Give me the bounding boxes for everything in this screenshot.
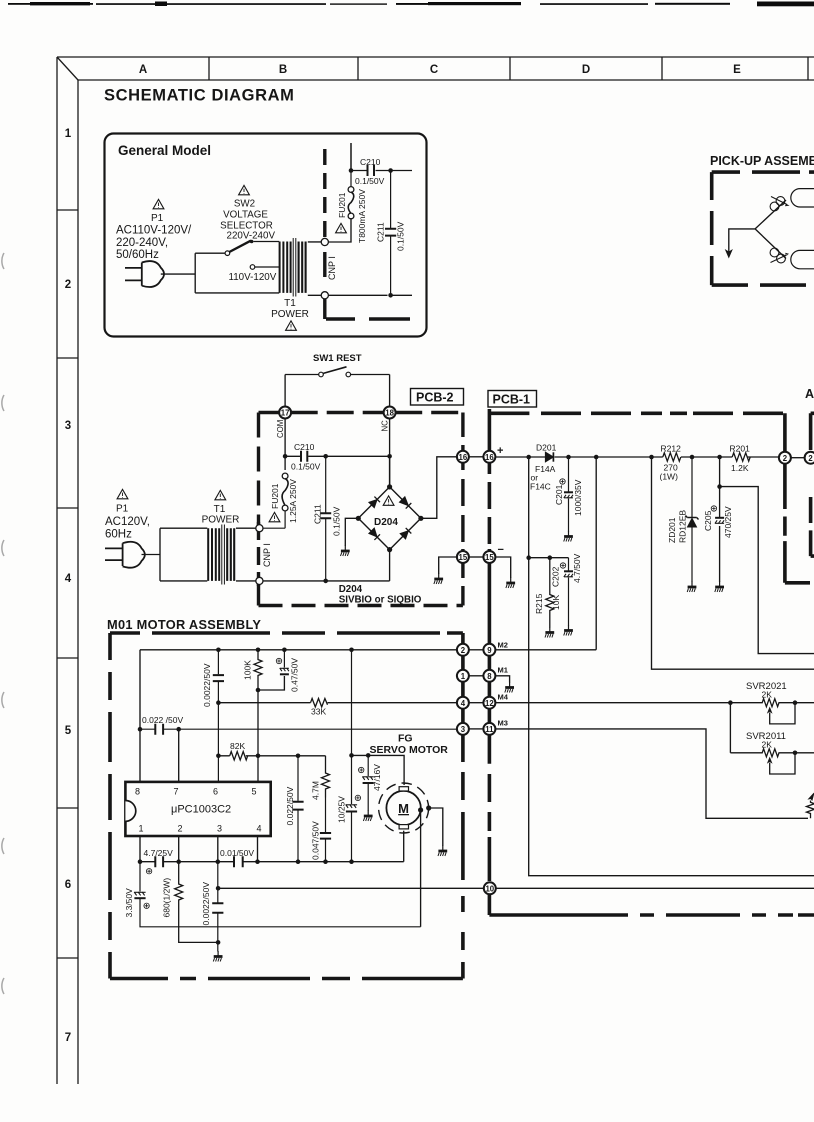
- node C205 top: [717, 455, 722, 460]
- svg-text:AC110V-120V/: AC110V-120V/: [116, 225, 192, 237]
- svg-text:15: 15: [459, 553, 468, 562]
- resistor 4.7M: [322, 756, 330, 798]
- connector circle 12: [483, 697, 495, 709]
- capacitor 0.0022/50V (bottom): [212, 862, 223, 952]
- wire 15 to ground: [439, 557, 457, 574]
- node 10/25V top rail: [349, 648, 354, 653]
- svg-text:3: 3: [461, 725, 466, 734]
- svg-text:SCHEMATIC DIAGRAM: SCHEMATIC DIAGRAM: [104, 87, 294, 105]
- svg-text:POWER: POWER: [202, 515, 240, 526]
- wire CNP1 to fuse: [328, 218, 388, 295]
- svg-text:10/25V: 10/25V: [337, 796, 347, 823]
- resistor R201: [732, 453, 750, 461]
- warning triangle FU201 (pcb-2): [269, 512, 280, 521]
- node SVR2021 left: [728, 700, 733, 705]
- svg-text:P1: P1: [151, 213, 164, 224]
- svg-text:4: 4: [461, 699, 466, 708]
- connector circle 8: [483, 670, 495, 682]
- svg-text:C202: C202: [551, 566, 561, 587]
- wire 17 down to C210 rail: [284, 418, 286, 470]
- wire SW1 left: [285, 375, 319, 407]
- wire R212 node down and right: [652, 457, 814, 669]
- wire 18 down to rail: [389, 418, 391, 485]
- label T1 POWER (120V): [202, 504, 240, 526]
- wire 100K to 0.47 cap: [258, 676, 284, 690]
- node 100K bottom: [256, 688, 261, 693]
- svg-text:FG: FG: [398, 733, 413, 745]
- svg-text:C205: C205: [703, 510, 713, 531]
- transformer T1 (120V): [208, 525, 234, 585]
- connector circle 11: [483, 723, 495, 735]
- motor brush top: [399, 787, 408, 791]
- svg-text:C201: C201: [554, 484, 564, 505]
- svg-text:0.47/50V: 0.47/50V: [290, 658, 300, 692]
- svg-text:470/25V: 470/25V: [723, 506, 733, 538]
- wire pin2 down: [178, 836, 180, 862]
- node C211 bottom (pcb-2): [323, 579, 328, 584]
- pick-up border bottom: [712, 283, 806, 287]
- capacitor 3.3/50V: [134, 862, 420, 927]
- svg-text:(1W): (1W): [660, 472, 679, 482]
- svg-text:16: 16: [485, 453, 494, 462]
- ground (bridge left): [341, 546, 350, 557]
- capacitor 0.022/50V (right): [292, 756, 303, 862]
- svg-text:5: 5: [251, 787, 256, 797]
- node R215 top: [548, 555, 553, 560]
- node pin4 rail: [255, 859, 260, 864]
- svg-text:FU201: FU201: [337, 192, 347, 218]
- node C205 branch: [717, 484, 722, 489]
- node 47/16V top: [366, 753, 371, 758]
- capacitor 0.01/50V: [234, 856, 243, 867]
- node rail to M2 branch: [594, 455, 599, 460]
- node 10/25V bottom: [349, 859, 354, 864]
- diode D201: [546, 452, 554, 461]
- wire motor bottom: [403, 831, 405, 862]
- svg-text:3: 3: [217, 824, 222, 834]
- node C211 top: [388, 168, 393, 173]
- wire 16-16 stub: [469, 456, 484, 458]
- capacitor 0.47/50V: [280, 650, 289, 675]
- node 0.0022 top: [216, 648, 221, 653]
- svg-text:15: 15: [485, 553, 494, 562]
- svg-text:D: D: [582, 64, 590, 76]
- M01 border top: [110, 631, 463, 635]
- wire 1-8 stub: [469, 675, 484, 677]
- svg-text:RD12EB: RD12EB: [678, 510, 688, 543]
- wire plug to T1 (120V): [142, 528, 208, 581]
- wire 3-11 stub: [469, 728, 484, 730]
- photo sensor lower body: [791, 250, 814, 268]
- resistor 680(1/2W): [175, 862, 218, 943]
- pick-up border top: [712, 170, 814, 174]
- svg-text:0.047/50V: 0.047/50V: [311, 821, 321, 860]
- wire C205 vertical: [719, 457, 721, 582]
- svg-text:6: 6: [213, 787, 218, 797]
- PCB-2 border bottom: [259, 604, 463, 607]
- PCB-1 border top: [489, 411, 785, 415]
- capacitor C210 (general model): [368, 165, 375, 176]
- warning triangle SW2: [239, 185, 250, 194]
- svg-text:0.01/50V: 0.01/50V: [220, 848, 254, 858]
- label box PCB-1: [488, 391, 537, 408]
- capacitor 0.022/50V (pins 8-7): [140, 724, 457, 735]
- motor M body: [386, 791, 420, 825]
- label AC120V 60Hz: [105, 516, 150, 541]
- svg-text:R201: R201: [730, 444, 751, 454]
- capacitor 0.0022/50V (top): [213, 650, 224, 782]
- svg-text:T800mA 250V: T800mA 250V: [357, 189, 367, 243]
- wire T1 secondary to CNP1: [308, 242, 322, 295]
- svg-text:1: 1: [65, 128, 72, 140]
- svg-text:PCB-2: PCB-2: [416, 391, 454, 405]
- capacitor 10/25V: [346, 650, 357, 862]
- wire top rail: [351, 143, 412, 171]
- connector circle 2 (assembly A): [805, 452, 814, 464]
- wire pin1 down: [139, 836, 141, 862]
- svg-text:50/60Hz: 50/60Hz: [116, 249, 159, 261]
- ground (C205): [715, 582, 724, 593]
- svg-text:3.3/50V: 3.3/50V: [124, 888, 134, 918]
- node 0.047 rail: [323, 859, 328, 864]
- svg-text:10: 10: [485, 884, 494, 893]
- fuse FU201 (general model): [348, 143, 354, 219]
- svg-text:M3: M3: [498, 719, 508, 728]
- wire 82K rail: [218, 755, 325, 757]
- connector circle 2 (m01): [457, 644, 469, 656]
- wire T1 secondary to CNP1 (pcb2): [236, 528, 256, 581]
- plug P1: [125, 261, 164, 287]
- trimmer SVR2011: [730, 749, 795, 774]
- svg-text:D204: D204: [374, 517, 398, 528]
- label T1 POWER: [271, 298, 309, 320]
- wire pin7 down: [178, 729, 180, 781]
- wire main +B rail: [495, 456, 779, 458]
- node 10/25V motor wire: [349, 753, 354, 758]
- node ZD201 top: [690, 455, 695, 460]
- warning triangle T1: [286, 321, 297, 330]
- diode arrows of D204: [369, 497, 412, 540]
- svg-text:8: 8: [487, 672, 492, 681]
- svg-text:SW2: SW2: [234, 199, 255, 210]
- ground (C201): [564, 531, 573, 542]
- polarity 47/16V: [359, 767, 364, 772]
- svg-text:ZD201: ZD201: [667, 517, 677, 543]
- svg-text:0.1/50V: 0.1/50V: [396, 221, 406, 251]
- connector circle 3 (m01): [457, 723, 469, 735]
- pick-up border left: [710, 172, 714, 285]
- svg-text:0.022/50V: 0.022/50V: [285, 786, 295, 825]
- motor terminal dot right: [418, 807, 423, 812]
- svg-text:SERVO MOTOR: SERVO MOTOR: [370, 744, 449, 756]
- svg-text:2: 2: [808, 454, 813, 463]
- svg-text:4.7/50V: 4.7/50V: [572, 553, 582, 583]
- ground (pin 15 pcb-1): [506, 578, 515, 589]
- PCB-1 border right: [783, 413, 787, 583]
- svg-text:2: 2: [65, 279, 71, 291]
- coil upper: [770, 197, 788, 211]
- photo sensor upper body: [791, 189, 814, 207]
- svg-text:10K: 10K: [551, 595, 561, 610]
- wire plug to switch: [161, 253, 279, 293]
- svg-text:−: −: [498, 544, 504, 556]
- capacitor 4.7/25V: [155, 856, 163, 867]
- wire C205 branch to SVR rail: [720, 487, 814, 654]
- wire M2 to rail branch: [495, 649, 596, 651]
- wire M4 to SVR2021: [495, 702, 730, 704]
- svg-text:M01 MOTOR ASSEMBLY: M01 MOTOR ASSEMBLY: [107, 617, 261, 632]
- wire bridge bottom to rail: [389, 550, 391, 581]
- svg-text:C210: C210: [360, 157, 381, 167]
- svg-text:7: 7: [65, 1032, 71, 1044]
- svg-text:F14A: F14A: [535, 464, 556, 474]
- svg-text:M: M: [398, 801, 409, 816]
- node 100K top: [256, 648, 261, 653]
- connector circle 18: [384, 407, 396, 419]
- wire bridge top to rail: [389, 456, 391, 487]
- resistor 100K: [254, 650, 262, 782]
- capacitor C201: [564, 457, 573, 532]
- node pin2 rail: [176, 859, 181, 864]
- wire top rail (motor): [140, 649, 457, 651]
- connector circle 4 (m01): [457, 697, 469, 709]
- label SW2 VOLTAGE SELECTOR: [220, 199, 273, 232]
- svg-text:VOLTAGE: VOLTAGE: [223, 210, 268, 221]
- node C201 top: [566, 455, 571, 460]
- svg-text:1.25A 250V: 1.25A 250V: [288, 479, 298, 523]
- svg-text:0.0022/50V: 0.0022/50V: [201, 882, 211, 926]
- svg-text:11: 11: [485, 725, 494, 734]
- svg-text:220-240V,: 220-240V,: [116, 237, 168, 249]
- svg-text:0.022 /50V: 0.022 /50V: [142, 715, 183, 725]
- PCB-1 border bottom: [489, 913, 814, 917]
- polarity 10/25V: [355, 795, 360, 800]
- CNP1 pin circles (pcb-2): [256, 525, 263, 585]
- coil lower: [770, 248, 788, 263]
- svg-text:C210: C210: [294, 442, 315, 452]
- svg-text:General Model: General Model: [118, 143, 211, 158]
- svg-text:1: 1: [461, 672, 466, 681]
- resistor R215: [546, 558, 554, 628]
- polarity 3.3/50V: [144, 903, 149, 908]
- wire SVR2021 left down to SVR2011: [729, 703, 731, 753]
- ground (motor): [438, 846, 447, 857]
- switch SW2: [225, 240, 255, 270]
- polarity C202: [560, 563, 565, 568]
- svg-text:SW1 REST: SW1 REST: [313, 353, 362, 364]
- column letters: [139, 64, 741, 76]
- svg-text:A: A: [805, 387, 814, 401]
- trimmer SVR2021: [730, 699, 795, 724]
- svg-text:1.2K: 1.2K: [731, 463, 749, 473]
- wire 2-9 stub: [469, 649, 484, 651]
- connector circle 17: [279, 407, 291, 419]
- svg-text:6: 6: [65, 879, 71, 891]
- svg-text:0.1/50V: 0.1/50V: [291, 462, 321, 472]
- assembly A border: [811, 413, 814, 556]
- label box PCB-2: [411, 389, 464, 406]
- svg-text:F14C: F14C: [530, 482, 551, 492]
- svg-text:B: B: [279, 64, 287, 76]
- connector circle 1 (m01): [457, 670, 469, 682]
- svg-text:AC120V,: AC120V,: [105, 516, 150, 528]
- svg-text:NC: NC: [381, 420, 390, 432]
- node 82K right: [256, 754, 261, 759]
- plug P1 (120V): [105, 542, 145, 568]
- PCB-2 border left: [257, 413, 260, 606]
- ground (ZD201): [687, 582, 696, 593]
- svg-text:33K: 33K: [311, 707, 326, 717]
- wire C210 rail: [285, 455, 390, 457]
- svg-text:1: 1: [138, 824, 143, 834]
- IC pin numbers top: [135, 787, 257, 797]
- wire 2-2 stub: [791, 457, 805, 459]
- svg-text:2: 2: [461, 646, 466, 655]
- node R212 left: [649, 455, 654, 460]
- svg-text:T1: T1: [214, 504, 226, 515]
- polarity C205: [711, 506, 716, 511]
- svg-text:16: 16: [459, 453, 468, 462]
- svg-text:680(1/2W): 680(1/2W): [162, 878, 172, 918]
- node 18 rail: [387, 454, 392, 459]
- svg-text:A: A: [139, 64, 147, 76]
- svg-text:2K: 2K: [762, 740, 773, 750]
- svg-text:POWER: POWER: [271, 309, 309, 320]
- svg-text:D201: D201: [536, 443, 557, 453]
- wire SW1 right: [351, 375, 390, 407]
- rectifier D204 bridge: [358, 487, 421, 550]
- svg-text:7: 7: [173, 787, 178, 797]
- wire 33K rail: [218, 702, 457, 704]
- wire R215/C202 top: [529, 557, 569, 559]
- connector circle 15 (pcb-2): [457, 551, 469, 563]
- svg-text:D204: D204: [339, 584, 363, 595]
- node pin1 rail: [138, 859, 143, 864]
- node D201 anode: [526, 455, 531, 460]
- svg-text:4.7M: 4.7M: [311, 781, 321, 800]
- wire M1 to ground: [495, 676, 510, 683]
- svg-text:18: 18: [385, 409, 394, 418]
- wire 15 to ground (pcb-1): [495, 557, 511, 578]
- wire 4-12 stub: [469, 702, 484, 704]
- svg-text:C211: C211: [313, 504, 323, 524]
- wire 15-15 stub: [469, 556, 484, 558]
- capacitor C211 (general model): [385, 171, 396, 296]
- connector circle 16 (pcb-2): [457, 451, 469, 463]
- PCB-2 border right: [461, 413, 464, 606]
- svg-text:17: 17: [281, 409, 290, 418]
- warning triangle P1: [153, 199, 164, 208]
- svg-text:C211: C211: [376, 222, 386, 242]
- ground (M1): [505, 682, 514, 693]
- svg-text:2: 2: [177, 824, 182, 834]
- PCB-1 border left: [488, 409, 492, 915]
- PCB-2 border solid at CNP1: [257, 522, 260, 586]
- capacitor C205: [715, 518, 724, 524]
- node 0.47 top: [282, 648, 287, 653]
- wire bottom rail: [140, 861, 404, 863]
- svg-text:0.1/50V: 0.1/50V: [332, 506, 342, 536]
- wire SVR2021 out: [795, 702, 814, 704]
- connector circle 16 (pcb-1): [483, 451, 495, 463]
- wire CNP1 top to rectifier bottom rail: [263, 580, 390, 582]
- svg-text:2: 2: [783, 454, 788, 463]
- wire rail left down to pin8: [139, 650, 141, 782]
- CNP1 pin circles (general model): [321, 238, 328, 299]
- svg-text:PCB-1: PCB-1: [493, 393, 531, 407]
- svg-text:CNP I: CNP I: [262, 543, 272, 567]
- wire pin3 down: [217, 836, 219, 862]
- node fuse top: [349, 168, 354, 173]
- svg-text:4: 4: [65, 573, 72, 585]
- svg-text:μPC1003C2: μPC1003C2: [171, 804, 231, 816]
- trimmer edge (cut): [807, 793, 814, 818]
- warning triangle D204: [383, 496, 394, 505]
- capacitor C210 (pcb-2): [301, 451, 307, 462]
- svg-text:100K: 100K: [243, 660, 253, 680]
- polarity C201: [560, 479, 565, 484]
- svg-text:110V-120V: 110V-120V: [229, 272, 277, 283]
- svg-text:47/16V: 47/16V: [372, 764, 382, 791]
- wire bottom rail to edge: [391, 294, 412, 296]
- svg-text:E: E: [733, 64, 741, 76]
- top scan bar: [8, 2, 814, 7]
- node 17 rail: [283, 454, 288, 459]
- svg-text:FU201: FU201: [270, 483, 280, 509]
- wire branch point: [729, 200, 786, 259]
- capacitor C211 (pcb-2): [320, 456, 331, 581]
- wire bridge left to ground: [345, 518, 358, 546]
- transformer T1 (general model): [280, 238, 306, 297]
- svg-text:5: 5: [65, 725, 72, 737]
- wire bridge right to pin 16: [421, 457, 457, 519]
- svg-text:3: 3: [65, 420, 71, 432]
- punch-hole copy marks: [2, 253, 4, 994]
- warning triangle P1 (120V): [117, 489, 128, 498]
- svg-text:M2: M2: [498, 641, 508, 650]
- wire to connector 10: [218, 887, 814, 889]
- ground (C202): [564, 625, 573, 636]
- zener ZD201: [686, 457, 699, 582]
- svg-text:SIVBIO or SIQBIO: SIVBIO or SIQBIO: [339, 595, 422, 606]
- IC pin numbers bottom: [138, 824, 261, 834]
- svg-text:9: 9: [487, 646, 492, 655]
- node C211 bottom: [388, 293, 393, 298]
- switch SW1: [319, 367, 351, 377]
- node 33K left: [216, 700, 221, 705]
- svg-text:1000/35V: 1000/35V: [573, 479, 583, 516]
- svg-text:4.7/25V: 4.7/25V: [144, 848, 174, 858]
- fuse FU201 (pcb-2): [263, 473, 289, 528]
- node 680 join: [216, 940, 221, 945]
- ground (0.0022 bottom): [213, 951, 222, 962]
- resistor 82K: [230, 752, 248, 760]
- capacitor 47/16V: [362, 755, 373, 811]
- capacitor C202: [564, 558, 573, 626]
- capacitor 0.047/50V: [320, 798, 331, 862]
- connector circle 15 (pcb-1): [483, 551, 495, 563]
- svg-text:R212: R212: [661, 444, 682, 454]
- ground (R215): [545, 627, 554, 638]
- svg-text:8: 8: [135, 787, 140, 797]
- wire SVR2011 out: [795, 752, 814, 754]
- wire rail down to M2: [595, 457, 597, 650]
- node 10 wire: [216, 886, 221, 891]
- svg-text:T1: T1: [284, 298, 296, 309]
- svg-text:82K: 82K: [230, 741, 245, 751]
- motor M dashed ring: [379, 783, 429, 833]
- svg-text:P1: P1: [116, 504, 129, 515]
